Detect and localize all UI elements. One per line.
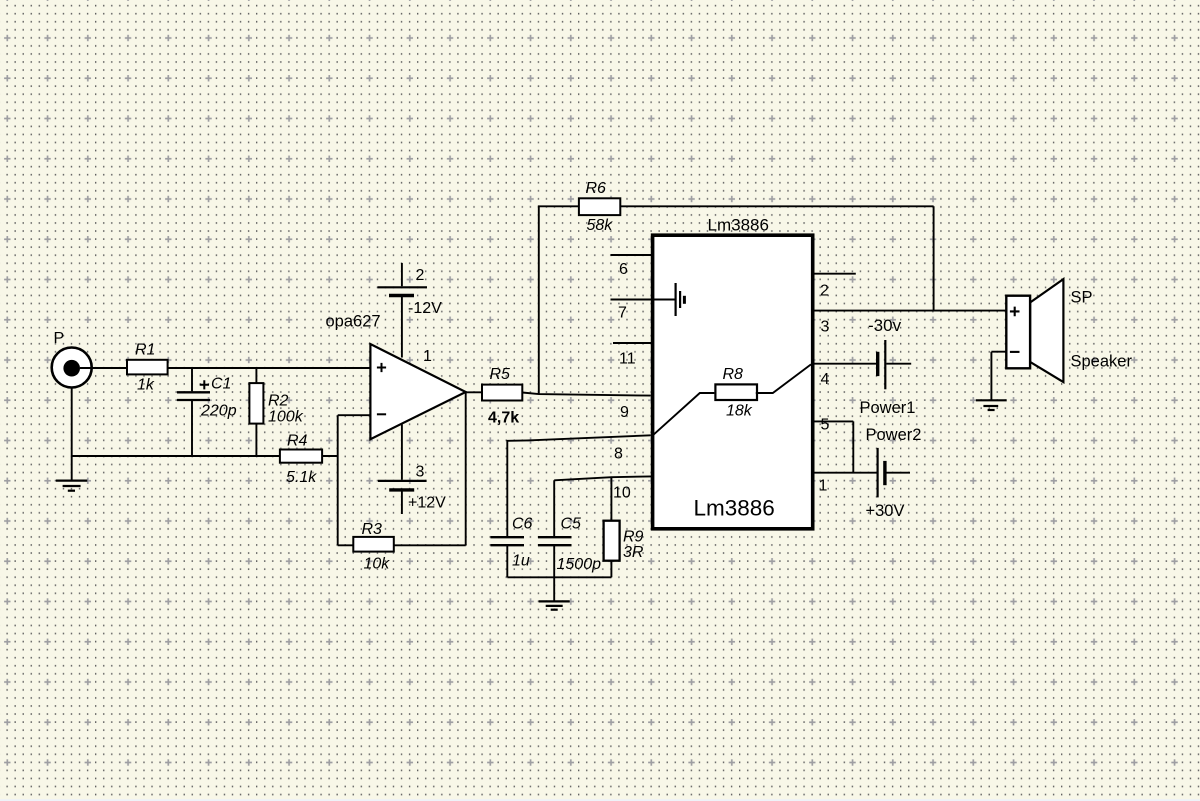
wire pin 1 to Power2 [812,472,877,474]
svg-text:R3: R3 [362,521,383,538]
battery Power2 +30V [866,426,922,520]
svg-text:-30v: -30v [868,316,902,335]
svg-text:+12V: +12V [408,495,446,512]
capacitor C1 [177,376,237,420]
svg-text:R4: R4 [287,433,308,450]
svg-text:C6: C6 [512,516,533,533]
svg-text:+30V: +30V [866,502,905,520]
svg-text:3: 3 [416,464,425,481]
svg-text:7: 7 [618,305,627,322]
svg-text:Lm3886: Lm3886 [694,496,775,521]
resistor R1 [127,342,168,394]
wire pin 3 to speaker [812,310,1006,312]
speaker SP [1006,279,1132,382]
svg-text:4,7k: 4,7k [488,410,519,427]
svg-text:R2: R2 [268,393,289,410]
wire output to R5 [466,391,482,393]
svg-text:10: 10 [613,485,631,502]
ground [56,481,87,491]
svg-text:18k: 18k [726,403,753,420]
connector P [52,330,92,388]
wire to minus input [338,414,371,416]
wire pin 8 [507,435,651,536]
wire feedback to R3 [338,392,466,545]
svg-text:10k: 10k [364,556,391,573]
wire pin3 supply [401,425,403,515]
resistor R3 [353,521,394,573]
svg-text:R1: R1 [135,342,155,359]
wire R5 to pin 9 [522,393,651,396]
pin 2 stub [812,273,856,275]
ground [539,601,570,609]
svg-text:Lm3886: Lm3886 [708,216,769,235]
svg-text:5: 5 [821,417,830,434]
svg-text:1: 1 [423,348,432,365]
capacitor C6 [491,516,533,570]
svg-text:C1: C1 [211,376,231,393]
svg-text:R5: R5 [490,366,511,383]
svg-text:Power1: Power1 [860,399,916,417]
battery Power1 -30v [860,316,916,417]
mute ground inside U2 [653,283,685,316]
svg-text:11: 11 [619,351,636,368]
wire R8 to pin4 node [756,364,811,393]
svg-text:1k: 1k [137,377,155,394]
wire C5 top [553,480,555,536]
svg-text:opa627: opa627 [326,313,381,331]
svg-text:220p: 220p [200,403,237,420]
svg-text:Speaker: Speaker [1071,353,1133,371]
wire C6 bottom / bottom rail [507,546,611,577]
battery +12V [378,464,446,512]
svg-text:2: 2 [820,283,829,300]
svg-text:1: 1 [819,478,828,495]
svg-text:100k: 100k [268,409,304,426]
svg-text:2: 2 [416,267,425,284]
svg-text:58k: 58k [587,217,614,234]
wire pin8 to R8 inside U2 [653,393,715,435]
pin 11 stub [613,342,651,344]
IC U2 Lm3886 [653,216,813,529]
wire C1 branch [191,368,193,456]
wire R1 to op-amp [168,367,371,369]
svg-text:3R: 3R [623,544,644,561]
wire pin 5 down [812,421,853,472]
wire to R9 top [610,477,612,521]
svg-text:3: 3 [821,319,830,336]
svg-text:R9: R9 [623,529,644,546]
svg-text:6: 6 [619,261,628,278]
wire bottom rail [72,455,338,457]
wire P to R1 [80,367,127,369]
svg-text:9: 9 [620,404,629,421]
wire inverting node vertical [337,415,339,545]
wire pin 10 / C5 top [554,476,651,480]
wire R2 branch [255,368,257,456]
pin 7 stub [611,299,652,301]
svg-text:SP: SP [1071,289,1093,307]
svg-text:5.1k: 5.1k [286,469,317,486]
ground [976,400,1007,410]
svg-text:1u: 1u [512,553,530,570]
svg-text:C5: C5 [561,516,582,533]
resistor R9 [604,521,644,561]
wire pin 4 to Power1 [812,363,876,365]
resistor R4 [280,433,322,487]
svg-text:R8: R8 [723,366,744,383]
resistor R5 [482,366,522,427]
wire R9 bottom [610,560,612,577]
capacitor C5 [538,516,601,574]
wire pin2 supply [401,263,403,358]
svg-text:4: 4 [821,371,830,388]
svg-text:8: 8 [614,446,623,463]
op-amp U1 opa627 [326,313,466,440]
svg-text:R6: R6 [586,180,607,197]
battery -12V [378,267,443,317]
pin 6 stub [611,254,652,256]
svg-text:1500p: 1500p [557,556,602,573]
resistor R8 [715,366,757,420]
resistor R6 [579,180,620,234]
wire R6 to pin3 net [620,206,933,310]
svg-text:-12V: -12V [408,300,442,317]
svg-text:P: P [54,330,65,347]
wire P down to ground [71,387,73,480]
wire up to R6 [539,206,579,394]
svg-text:Power2: Power2 [866,426,922,444]
resistor R2 [249,383,303,425]
wire speaker minus to ground [991,352,1006,400]
wire C5 to ground [553,546,555,601]
